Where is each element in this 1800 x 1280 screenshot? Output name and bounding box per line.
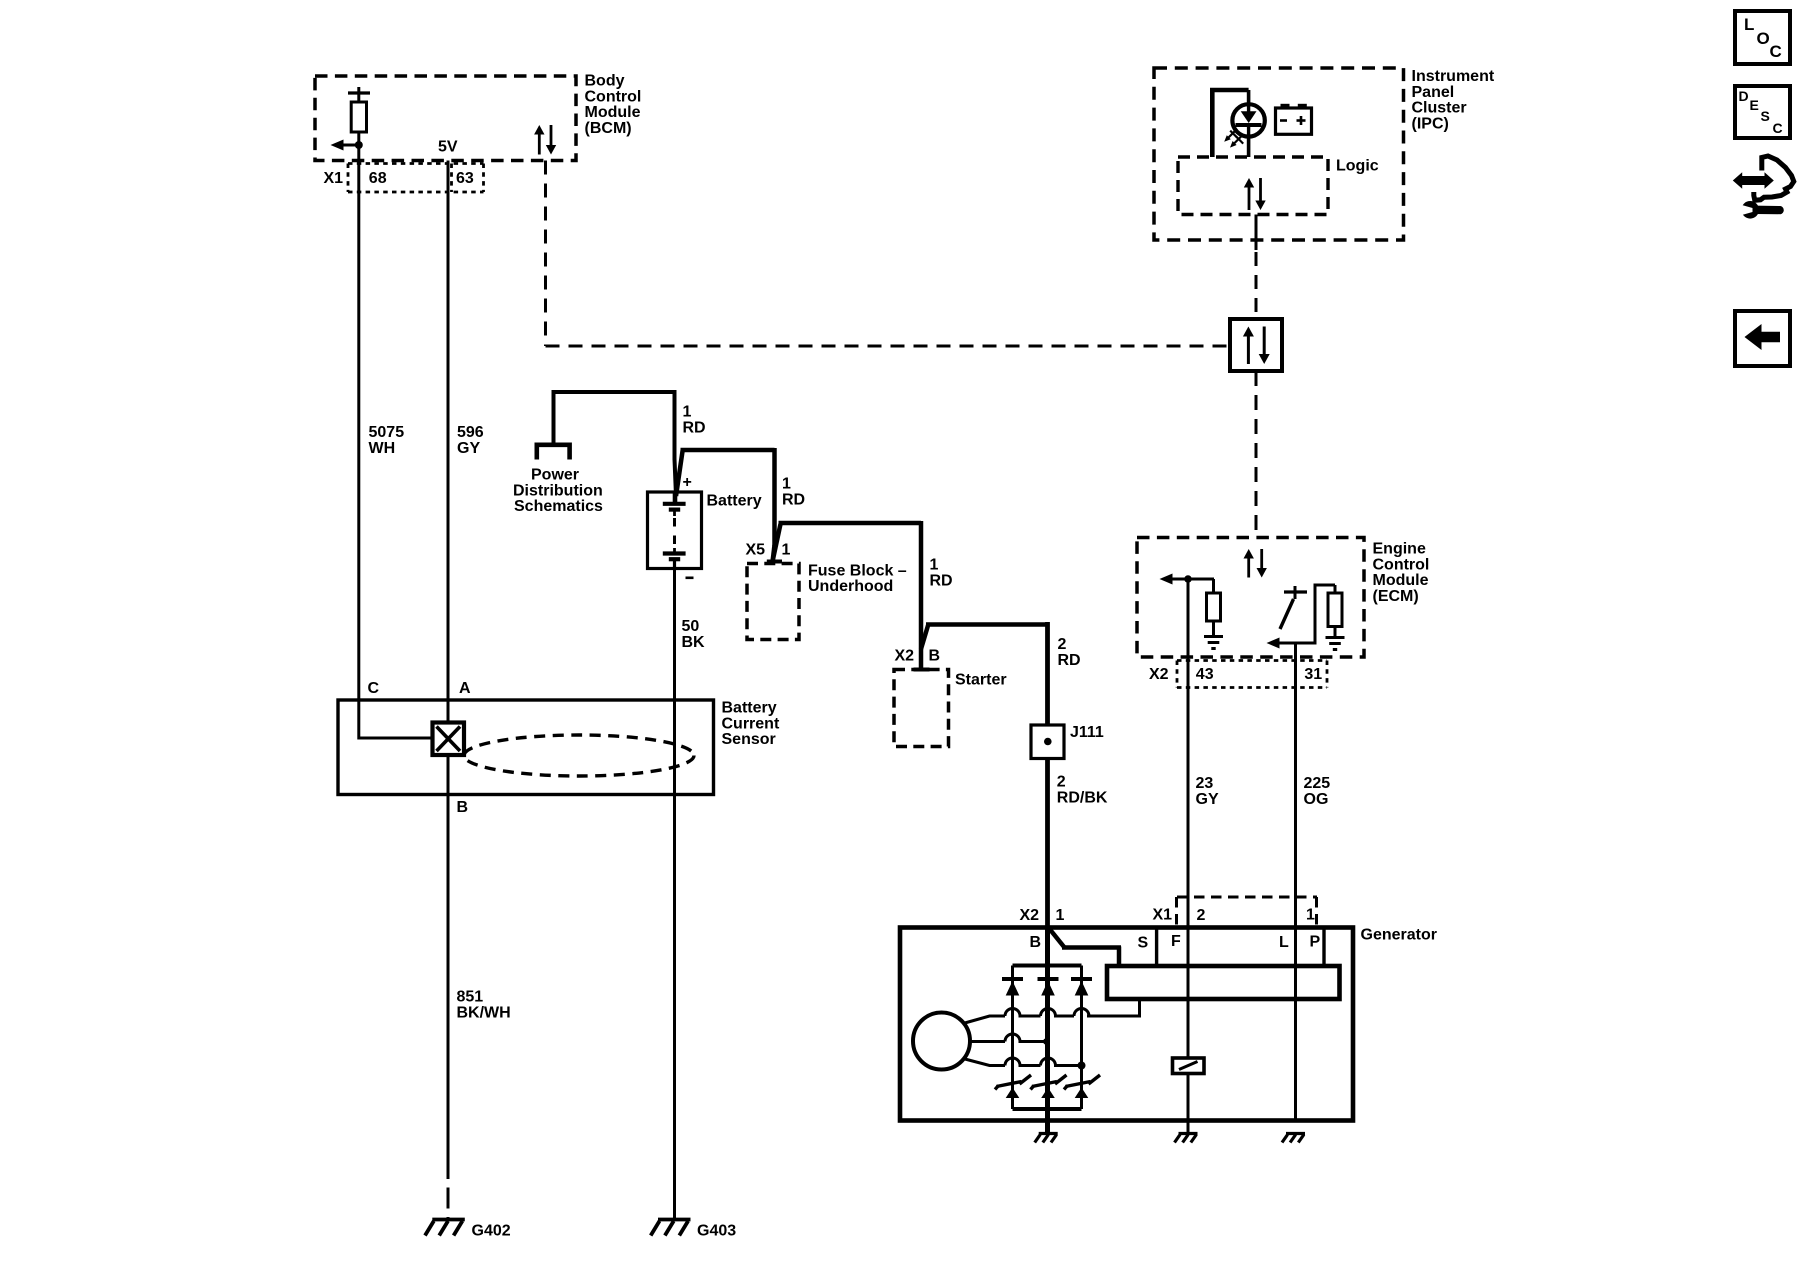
svg-text:E: E [1750,97,1759,113]
svg-text:G403: G403 [697,1223,736,1240]
zener bottom right [1066,1082,1091,1087]
wire 2 RD starter to J111 [1045,622,1050,725]
battery current sensor box [338,700,714,795]
stator winding phase 2 [970,1034,1048,1042]
rectifier right leg [1080,966,1083,1110]
icon DESC box [1735,86,1790,138]
ground G402 symbol [432,1218,465,1222]
wire serial data BCM dashed [544,161,547,347]
svg-text:C: C [368,680,380,697]
svg-text:S: S [1761,108,1770,124]
node serial data junction box [1230,319,1282,371]
svg-text:2: 2 [1058,636,1067,653]
svg-text:O: O [1757,29,1770,48]
resistor ECM right pullup [1328,593,1342,627]
wire 2 RD/BK J111 to generator [1045,759,1050,928]
stator winding phase 1 [963,1009,1140,1024]
svg-text:A: A [459,680,471,697]
wire 5075 WH pin 68 [357,145,360,700]
ground G403 symbol [658,1218,691,1222]
svg-text:BK: BK [682,634,706,651]
svg-text:1: 1 [782,476,791,493]
svg-text:Engine: Engine [1373,541,1426,558]
svg-text:X5: X5 [746,542,766,559]
svg-text:63: 63 [456,170,474,187]
charge indicator lamp circle [1232,104,1264,136]
svg-text:2: 2 [1057,774,1066,791]
junction dot phase 2 [1043,1038,1050,1045]
svg-text:L: L [1279,934,1289,951]
wire generator B main [1045,927,1050,1133]
internal left arrow in BCM [331,140,344,151]
stator winding phase 3 [963,1058,1082,1065]
wire sensor internal B [447,755,450,794]
svg-text:X2: X2 [1149,666,1169,683]
svg-text:1: 1 [1056,907,1065,924]
module BCM dashed box [315,76,576,161]
ground symbol generator B [1039,1132,1058,1135]
internal left arrow ECM pin 31 [1267,638,1280,649]
wire 1 RD fuse to starter [773,524,781,562]
svg-text:J111: J111 [1070,724,1104,741]
junction dot ECM 43 [1184,575,1192,583]
svg-text:F: F [1171,933,1181,950]
svg-text:(ECM): (ECM) [1373,588,1419,605]
svg-text:Power: Power [531,467,579,484]
svg-text:Underhood: Underhood [808,578,893,595]
serial data arrows in ECM [1247,558,1250,578]
svg-text:GY: GY [457,440,480,457]
svg-text:Schematics: Schematics [514,498,603,515]
svg-text:Fuse Block –: Fuse Block – [808,562,907,579]
svg-text:1: 1 [782,542,791,559]
wire F field to ground [1187,1074,1190,1133]
junction dot BCM [355,141,363,149]
icon LOC box [1735,11,1790,64]
wire battery positive drop [673,390,677,460]
svg-text:+: + [683,474,692,491]
wire power distribution feed [552,392,556,443]
svg-text:Distribution: Distribution [513,482,603,499]
svg-text:(IPC): (IPC) [1412,115,1449,132]
junction dot J111 [1044,738,1052,746]
junction dot phase 3 [1078,1062,1086,1070]
rotor circle [913,1013,970,1070]
wire 225 OG ECM 31 to generator L [1294,643,1297,928]
voltage regulator box [1107,966,1340,999]
icon wiring nav arrow with wrench [1733,172,1774,189]
svg-text:RD: RD [683,419,706,436]
svg-text:Instrument: Instrument [1412,68,1495,85]
resistor ECM left pulldown [1212,579,1215,593]
serial data arrows in BCM [538,134,541,155]
svg-text:OG: OG [1304,791,1329,808]
svg-text:D: D [1739,88,1749,104]
wire 1 RD battery to fuse [676,450,683,496]
diode top right [1071,977,1092,981]
svg-text:2: 2 [1197,907,1206,924]
svg-text:WH: WH [369,440,396,457]
field winding box with slash [1173,1058,1205,1074]
rectifier top bar [1013,964,1082,968]
wire branch jog to J111 [921,625,928,650]
svg-text:1: 1 [683,404,692,421]
svg-text:Module: Module [1373,572,1429,589]
svg-text:G402: G402 [472,1223,511,1240]
zener bottom left [997,1082,1022,1087]
ground symbol generator L [1286,1132,1305,1135]
svg-text:X1: X1 [1153,907,1173,924]
connector pin X5-1 tick [767,560,782,564]
svg-text:Logic: Logic [1336,158,1379,175]
svg-text:GY: GY [1196,791,1219,808]
svg-text:P: P [1310,934,1321,951]
svg-text:RD: RD [1058,652,1081,669]
rectifier left leg [1011,966,1014,1110]
svg-text:L: L [1744,15,1754,34]
svg-text:RD: RD [782,491,805,508]
svg-text:43: 43 [1196,666,1214,683]
svg-text:Control: Control [1373,556,1430,573]
svg-text:1: 1 [930,557,939,574]
stator sense wire [1138,999,1141,1018]
ground symbol ECM left [1204,635,1223,638]
wire serial data node to ECM dashed [1255,371,1258,537]
svg-text:5V: 5V [438,139,458,156]
zener bottom middle [1032,1082,1057,1087]
fuse block dashed box [747,564,799,640]
module IPC dashed box [1154,68,1404,240]
label battery minus [686,576,694,579]
icon back arrow box [1735,311,1790,366]
svg-text:851: 851 [457,989,484,1006]
pin separator S left [1117,947,1122,966]
wire 596 GY pin 63 (5V) [447,161,450,701]
ground symbol ECM right [1326,636,1345,639]
svg-text:1: 1 [1306,907,1315,924]
svg-text:B: B [457,799,469,816]
svg-text:RD: RD [930,572,953,589]
svg-text:Starter: Starter [955,672,1007,689]
connector pin X2-B tick starter [914,668,930,672]
module ECM dashed box [1137,538,1364,658]
serial data arrows in Logic [1248,187,1251,211]
power distribution bracket symbol [537,445,570,460]
sensor element X box [433,723,465,756]
wire B branch to regulator [1050,930,1065,948]
pin separator P right [1322,929,1325,965]
svg-text:X2: X2 [895,648,915,665]
svg-text:Battery: Battery [707,493,762,510]
svg-text:Module: Module [585,104,641,121]
ground symbol generator F [1179,1132,1198,1135]
wire sensor internal C [357,700,360,740]
svg-text:B: B [929,648,941,665]
starter dashed box [894,670,949,747]
wire logic to IPC edge [1255,215,1258,251]
wire sensor internal A [447,700,450,723]
wire F through regulator to field [1187,928,1190,1058]
svg-text:Cluster: Cluster [1412,100,1467,117]
battery B1 box [648,492,702,569]
connector X1 pin box generator [1177,896,1317,899]
svg-text:(BCM): (BCM) [585,120,632,137]
svg-text:5075: 5075 [369,424,405,441]
svg-text:S: S [1138,935,1149,952]
svg-text:BK/WH: BK/WH [457,1004,511,1021]
svg-text:C: C [1770,42,1782,61]
svg-text:Battery: Battery [722,700,777,717]
svg-text:Panel: Panel [1412,84,1455,101]
connector X1 pin row of BCM [348,162,484,165]
switch ECM (L terminal driver) [1294,586,1297,592]
wire ECM right leg [1314,585,1317,645]
svg-text:B: B [1030,934,1042,951]
wire serial data IPC to node dashed [1255,252,1258,319]
svg-text:68: 68 [369,170,387,187]
lamp flash arrows [1226,129,1237,140]
internal left arrow ECM pin 43 [1160,574,1173,585]
pin separator S-F [1155,929,1158,965]
svg-text:Sensor: Sensor [722,731,776,748]
svg-text:50: 50 [682,618,700,635]
connector X2 pin row of ECM [1177,659,1327,662]
battery plates [673,492,678,502]
battery icon in IPC [1276,108,1312,134]
serial data arrows in node [1247,336,1250,365]
svg-text:596: 596 [457,424,484,441]
sensor loop ellipse dashed [464,735,694,776]
svg-text:C: C [1773,120,1783,136]
logic dashed box [1178,157,1328,215]
rectifier bottom bar [1013,1107,1082,1111]
wire 851 BK/WH [447,794,450,1158]
svg-text:Control: Control [585,88,642,105]
diode top left [1002,977,1023,981]
wire L through generator [1294,928,1297,1121]
diode top middle [1038,977,1059,981]
splice J111 box [1031,725,1064,759]
wire 23 GY ECM 43 to generator F [1187,579,1190,928]
svg-text:31: 31 [1304,666,1322,683]
svg-text:225: 225 [1304,775,1331,792]
resistor in BCM (battery saver feed) [357,87,360,93]
svg-text:Current: Current [722,715,780,732]
generator box [900,928,1353,1121]
svg-text:X2: X2 [1020,907,1040,924]
wire charge indicator loop [1212,90,1248,157]
wire 50 BK battery negative [673,568,676,1218]
svg-text:Generator: Generator [1361,927,1437,944]
svg-text:23: 23 [1196,775,1214,792]
wire serial data horizontal dashed [546,345,1231,348]
svg-text:Body: Body [585,73,625,90]
svg-text:X1: X1 [324,170,344,187]
svg-text:RD/BK: RD/BK [1057,789,1108,806]
